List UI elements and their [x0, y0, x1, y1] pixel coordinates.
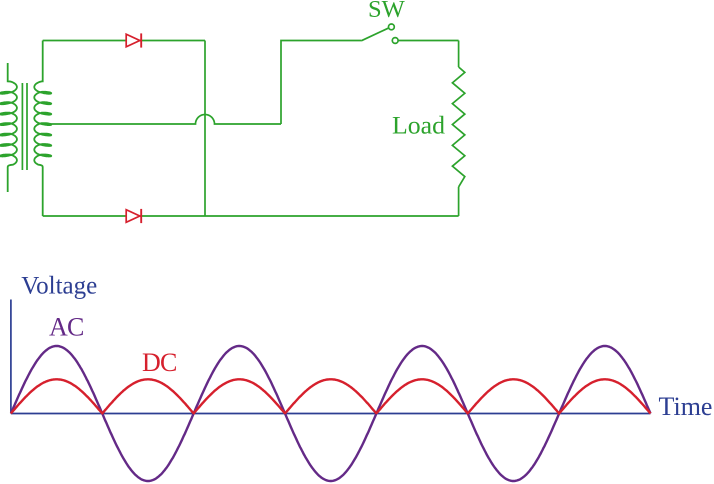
axis X time: [11, 413, 651, 415]
axis Y voltage: [10, 300, 12, 414]
wire diode junction vertical: [204, 41, 206, 217]
transformer secondary winding with top and bottom leads: [34, 41, 51, 217]
wire top rail from secondary top to diode junction: [43, 40, 205, 42]
wire load bottom lead: [458, 187, 460, 216]
resistor Load: [452, 67, 464, 187]
svg-text:DC: DC: [142, 348, 177, 377]
transformer core: [22, 83, 27, 170]
curve DC: [11, 379, 651, 413]
svg-text:Time: Time: [659, 392, 713, 421]
wire center tap with hop over diode junction: [47, 115, 281, 125]
switch SW terminal top: [389, 24, 395, 30]
wire load top lead: [458, 41, 460, 68]
svg-text:SW: SW: [368, 0, 406, 23]
switch SW lever: [361, 28, 388, 41]
wire bottom rail: [43, 215, 459, 217]
svg-text:AC: AC: [49, 313, 84, 342]
diode D2: [126, 209, 141, 223]
svg-text:Load: Load: [392, 111, 445, 140]
switch SW terminal bottom: [392, 38, 398, 44]
svg-text:Voltage: Voltage: [21, 273, 97, 300]
curve AC: [11, 346, 651, 481]
diode D1: [126, 33, 141, 47]
wire switch to load: [398, 40, 458, 42]
wire center tap riser to switch: [281, 41, 361, 125]
transformer primary winding with leads: [0, 63, 17, 192]
